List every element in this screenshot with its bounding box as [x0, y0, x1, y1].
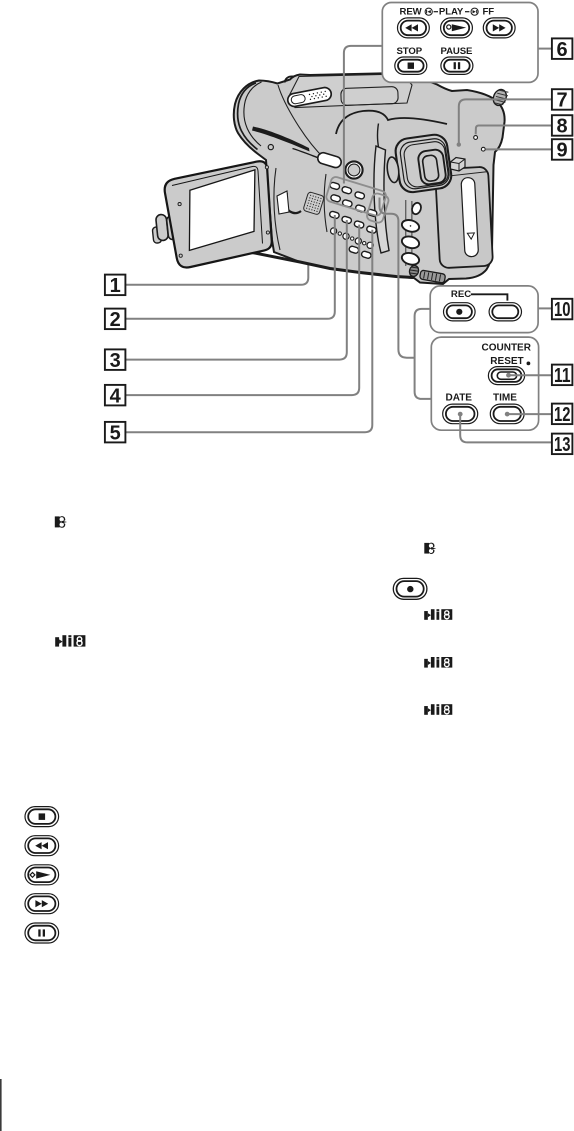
svg-text:12: 12: [554, 404, 571, 426]
svg-text:6: 6: [557, 39, 568, 61]
svg-text:3: 3: [110, 350, 121, 372]
svg-text:DATE: DATE: [446, 393, 473, 404]
svg-text:8: 8: [557, 116, 568, 138]
svg-text:TIME: TIME: [493, 393, 517, 404]
svg-text:PLAY: PLAY: [439, 7, 464, 18]
svg-text:10: 10: [554, 299, 571, 321]
svg-text:STOP: STOP: [397, 46, 423, 57]
svg-text:5: 5: [110, 422, 121, 444]
svg-text:REC: REC: [451, 289, 471, 300]
svg-text:COUNTER: COUNTER: [482, 342, 532, 353]
svg-text:FF: FF: [483, 7, 495, 18]
svg-text:2: 2: [110, 309, 121, 331]
svg-text:9: 9: [557, 140, 568, 162]
svg-text:RESET: RESET: [490, 356, 523, 367]
svg-text:4: 4: [110, 385, 122, 407]
svg-text:REW: REW: [400, 7, 423, 18]
svg-text:7: 7: [557, 90, 568, 112]
svg-text:1: 1: [110, 275, 121, 297]
svg-text:11: 11: [554, 365, 571, 387]
svg-text:PAUSE: PAUSE: [441, 46, 474, 57]
svg-text:13: 13: [554, 434, 571, 456]
